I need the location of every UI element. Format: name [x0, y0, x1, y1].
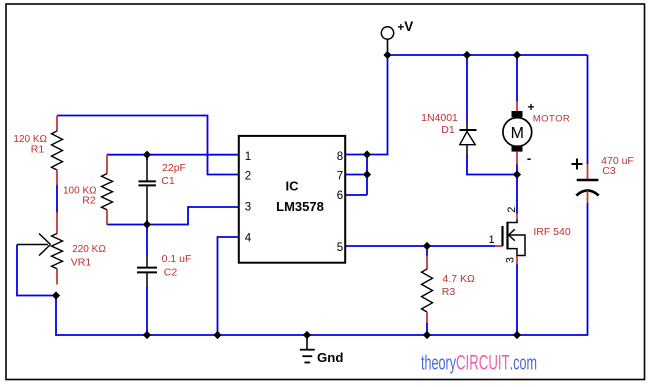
svg-text:3: 3: [245, 202, 251, 214]
wire C2 top stub: [146, 225, 148, 256]
svg-text:1N4001: 1N4001: [421, 112, 458, 124]
label MOTOR: [533, 114, 570, 125]
node R3 bus junction: [423, 331, 431, 339]
svg-text:VR1: VR1: [71, 257, 92, 269]
label C3 polarity plus: [572, 159, 583, 170]
node C1 top junction: [143, 151, 151, 159]
node VR1 wiper junction: [52, 291, 60, 299]
wire C2 bottom stub: [146, 287, 148, 336]
wire C1 top stub: [146, 155, 148, 160]
svg-text:+V: +V: [398, 19, 414, 34]
wire D1 branch lower to motor node: [467, 155, 517, 175]
svg-text:2: 2: [506, 207, 518, 213]
node MOSFET source bus junction: [513, 331, 521, 339]
node pin7 junction: [363, 170, 371, 178]
wire motor top feed: [516, 55, 518, 102]
wire R3 bottom stub: [426, 323, 428, 336]
label Q1 pin 1: [488, 234, 494, 246]
svg-text:220 KΩ: 220 KΩ: [72, 244, 106, 255]
ground: [300, 335, 344, 365]
svg-text:LM3578: LM3578: [276, 199, 324, 214]
pin 5: [337, 242, 343, 254]
wire pin5 to gate: [345, 245, 496, 247]
svg-text:MOTOR: MOTOR: [533, 114, 570, 125]
transistor Q1 IRF 540: [495, 214, 525, 265]
label D1 value 1N4001: [421, 112, 458, 136]
svg-text:D1: D1: [441, 124, 455, 136]
wire node to MOSFET drain: [516, 175, 518, 214]
svg-text:M: M: [511, 125, 524, 142]
wire VR1 wiper loop: [17, 245, 56, 296]
capacitor C1: [139, 158, 156, 221]
node motor bottom junction: [513, 170, 521, 178]
label C2 value 0.1 uF: [162, 253, 192, 278]
node ground bus junction: [303, 331, 311, 339]
wire pins 8-7-6 tie: [366, 155, 368, 196]
node D1 top junction: [463, 51, 471, 59]
node motor top junction: [513, 51, 521, 59]
svg-text:1: 1: [245, 151, 251, 163]
pin 8: [337, 151, 343, 163]
node gate/R3 junction: [423, 242, 431, 250]
resistor R1: [52, 116, 63, 186]
svg-text:IRF 540: IRF 540: [533, 226, 571, 238]
pin 1: [245, 151, 251, 163]
capacitor C2: [137, 256, 157, 288]
svg-text:R1: R1: [31, 144, 45, 156]
label R2 value 100 K&#937;: [63, 186, 97, 207]
op-amp U1 IC LM3578 body: [239, 136, 345, 263]
label Q1 value IRF 540: [533, 226, 571, 238]
resistor R3: [422, 256, 433, 324]
svg-text:R2: R2: [82, 195, 96, 207]
svg-text:4.7 KΩ: 4.7 KΩ: [443, 273, 476, 285]
potentiometer VR1: [17, 212, 63, 285]
wire pin8 to +V line: [345, 154, 389, 156]
wire MOSFET source to bus: [516, 264, 518, 336]
pin 7: [337, 171, 343, 183]
svg-text:6: 6: [337, 190, 343, 202]
wire R2/C1 top to pin1: [107, 154, 240, 156]
node pin8 junction: [363, 150, 371, 158]
node +V junction: [383, 51, 391, 59]
wire C3 branch lower: [587, 203, 589, 336]
svg-text:1: 1: [488, 234, 494, 246]
wire D1 branch upper: [466, 55, 468, 121]
label Q1 pin 2: [506, 207, 518, 213]
svg-text:22pF: 22pF: [162, 162, 186, 174]
supply terminal +V: [381, 19, 413, 55]
svg-text:2: 2: [245, 171, 251, 183]
motor M: [503, 101, 532, 165]
svg-text:Gnd: Gnd: [317, 350, 343, 365]
svg-text:R3: R3: [442, 286, 456, 298]
wire top supply bus: [388, 54, 588, 56]
logo theoryCIRCUIT.com: [421, 350, 537, 374]
svg-text:C2: C2: [164, 266, 178, 278]
svg-text:4: 4: [245, 233, 252, 245]
svg-text:3: 3: [505, 257, 517, 263]
pin 4: [245, 233, 252, 245]
pin 6: [337, 190, 343, 202]
wire motor bottom to node: [516, 164, 518, 176]
svg-text:C1: C1: [161, 175, 175, 187]
wire R2/C1 bottom to pin3: [107, 207, 239, 225]
svg-text:7: 7: [337, 171, 343, 183]
svg-text:theoryCIRCUIT.com: theoryCIRCUIT.com: [421, 350, 537, 374]
wire R3 top stub: [426, 246, 428, 256]
wire R1 bottom to VR1 top: [56, 184, 58, 213]
resistor R2: [102, 155, 113, 225]
label R1 value 120 K&#937;: [13, 134, 47, 156]
label R3 value 4.7 K&#937;: [442, 273, 475, 298]
svg-text:+: +: [528, 102, 535, 114]
svg-text:8: 8: [337, 151, 343, 163]
wire +V down to pin8 row: [387, 55, 389, 155]
wire C3 branch upper: [587, 55, 589, 164]
node pin4 bus junction: [213, 331, 221, 339]
label motor minus: [527, 151, 531, 166]
label C3 value 470 uF: [601, 155, 634, 177]
wire bottom ground bus: [56, 334, 588, 336]
label motor plus: [528, 102, 535, 114]
node C1 bottom junction: [143, 220, 151, 228]
wire pin7 stub: [345, 174, 368, 176]
wire VR1 bottom to bus: [55, 295, 57, 336]
svg-text:IC: IC: [286, 179, 300, 194]
diode D1: [460, 121, 477, 156]
svg-text:5: 5: [337, 242, 343, 254]
capacitor C3: [576, 164, 598, 203]
label Q1 pin 3: [505, 257, 517, 263]
label VR1 value 220 K&#937;: [71, 244, 107, 269]
pin 3: [245, 202, 251, 214]
node C2 bus junction: [143, 331, 151, 339]
label C1 value 22pF: [161, 162, 186, 187]
svg-text:C3: C3: [602, 165, 616, 177]
wire pin4 to ground bus: [218, 237, 240, 336]
svg-text:-: -: [527, 151, 531, 166]
wire pin6 stub: [345, 194, 368, 196]
svg-text:0.1 uF: 0.1 uF: [162, 253, 192, 265]
pin 2: [245, 171, 251, 183]
wire C1 bottom stub: [146, 220, 148, 225]
wire R1 top to pin2: [57, 116, 239, 175]
